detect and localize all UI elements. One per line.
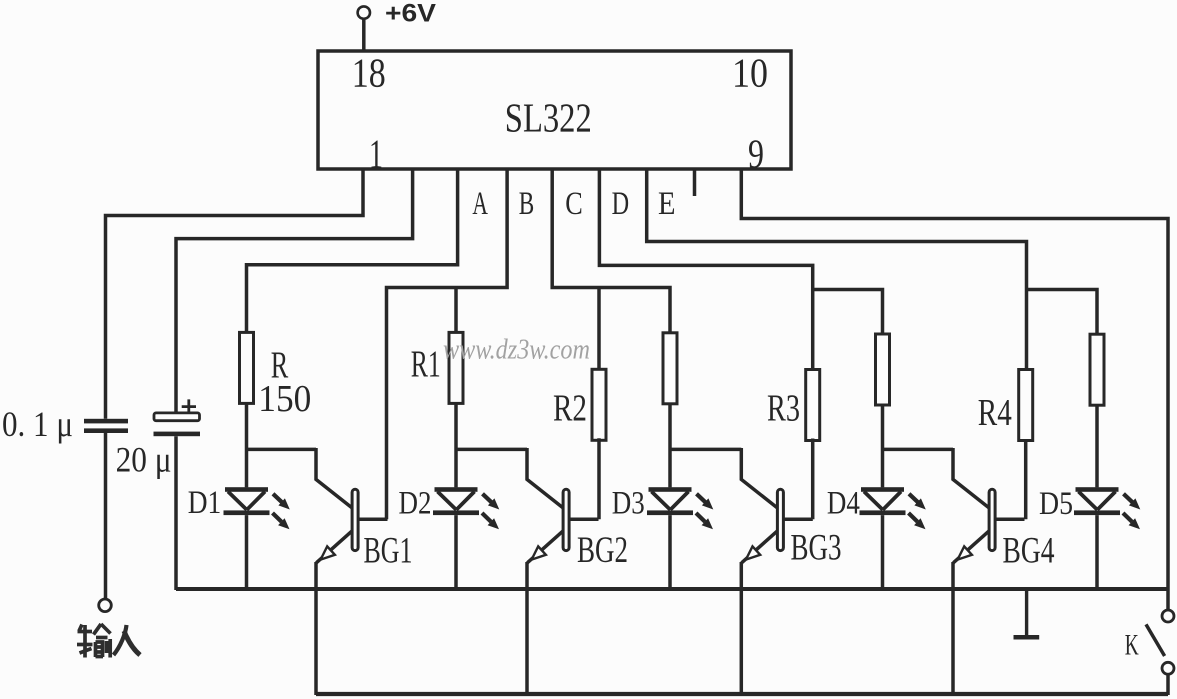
- wire +6V to IC: [362, 19, 366, 51]
- svg-text:A: A: [472, 186, 488, 222]
- ground: [1014, 590, 1040, 637]
- pin 8 stub: [693, 169, 697, 196]
- wire pin E to R4 and stage5 resistor: [647, 169, 1097, 370]
- switch K: [1125, 610, 1174, 695]
- svg-text:B: B: [519, 186, 535, 222]
- svg-text:www.dz3w.com: www.dz3w.com: [443, 334, 590, 366]
- capacitor 0.1u: [2, 404, 128, 444]
- LED D2: [399, 486, 500, 530]
- wire R4 to BG4 base: [1024, 441, 1028, 520]
- wire pin1 to 0.1u cap: [106, 169, 364, 419]
- svg-text:C: C: [565, 186, 583, 222]
- wire pin D to R3 and stage4 resistor: [599, 169, 882, 370]
- svg-text:D5: D5: [1039, 486, 1073, 522]
- svg-text:1: 1: [369, 130, 383, 176]
- resistor stage4 anode: [876, 334, 890, 405]
- cathode bus: [176, 587, 1168, 591]
- svg-text:R2: R2: [553, 388, 587, 430]
- LED D5: [1039, 486, 1140, 529]
- LED D1: [188, 485, 290, 529]
- svg-text:0. 1 μ: 0. 1 μ: [2, 404, 73, 444]
- svg-text:D1: D1: [188, 485, 222, 521]
- wire D3 anode to BG3 collector: [670, 448, 741, 452]
- transistor BG4: [953, 448, 1055, 572]
- svg-text:D3: D3: [612, 486, 645, 522]
- svg-text:20 μ: 20 μ: [116, 440, 172, 480]
- resistor stage3 anode: [663, 333, 677, 404]
- resistor R4: [978, 370, 1033, 441]
- svg-text:E: E: [658, 186, 676, 222]
- wire R1 to D2 anode: [454, 403, 458, 487]
- wire BG3 emitter to bottom rail: [740, 562, 744, 695]
- svg-text:SL322: SL322: [505, 95, 592, 141]
- capacitor 20u electrolytic: [116, 399, 200, 479]
- wire stage5 resistor to D5 anode: [1095, 405, 1099, 487]
- wire pin B to BG1 base and R1: [387, 169, 508, 519]
- resistor R3: [767, 370, 820, 441]
- resistor R 150: [240, 332, 312, 420]
- wire stage4 resistor to D4 anode: [881, 405, 885, 487]
- svg-text:D: D: [612, 186, 630, 222]
- LED D3: [612, 486, 714, 530]
- wire stage3 resistor to D3 anode: [668, 404, 672, 488]
- op-amp U1 : IC SL322 box: [318, 49, 791, 176]
- wire D5 cathode to bus: [1095, 515, 1099, 590]
- wire BG4 emitter to bottom rail: [951, 562, 955, 695]
- wire pin 9 to switch K: [741, 169, 1168, 610]
- power terminal +6V: [358, 0, 437, 28]
- transistor BG2: [527, 448, 628, 571]
- svg-text:R1: R1: [411, 343, 441, 385]
- wire BG2 emitter to bottom rail: [525, 562, 529, 695]
- bottom rail: [316, 692, 1168, 696]
- wire pin2 to 20u cap: [176, 169, 413, 413]
- svg-text:150: 150: [258, 378, 311, 420]
- resistor R1: [411, 332, 463, 403]
- wire 20u to bus: [174, 436, 178, 590]
- wire D1 cathode to bus: [245, 515, 249, 590]
- wire D4 cathode to bus: [881, 515, 885, 590]
- wire D1 anode to BG1 collector: [247, 448, 317, 452]
- wire BG1 emitter to bottom rail: [314, 562, 318, 695]
- svg-text:BG3: BG3: [791, 528, 842, 569]
- wire 0.1u to input terminal: [104, 433, 108, 599]
- wire D2 anode to BG2 collector: [456, 448, 527, 452]
- svg-text:9: 9: [748, 130, 764, 176]
- resistor R2: [553, 369, 606, 440]
- svg-text:R3: R3: [767, 388, 800, 430]
- LED D4: [827, 486, 926, 530]
- svg-text:K: K: [1125, 629, 1139, 662]
- svg-text:D4: D4: [827, 486, 860, 522]
- svg-text:18: 18: [352, 49, 386, 95]
- wire D4 anode to BG4 collector: [883, 448, 954, 452]
- resistor stage5 anode: [1090, 334, 1104, 405]
- wire pin A to R150: [247, 169, 458, 332]
- transistor BG3: [741, 448, 841, 569]
- svg-text:D2: D2: [399, 486, 432, 522]
- input label (shu ru): [77, 624, 140, 658]
- svg-text:+6V: +6V: [385, 0, 436, 28]
- transistor BG1: [316, 448, 413, 572]
- svg-text:10: 10: [732, 49, 768, 95]
- input terminal: [99, 599, 112, 612]
- wire R150 to D1 anode: [245, 403, 249, 487]
- wire D2 cathode to bus: [454, 515, 458, 590]
- svg-text:BG2: BG2: [577, 530, 628, 571]
- svg-text:BG4: BG4: [1003, 531, 1055, 572]
- wire pin C to R2 and stage3 resistor: [552, 169, 670, 369]
- wire R3 to BG3 base: [811, 439, 815, 520]
- wire D3 cathode to bus: [668, 515, 672, 590]
- svg-text:BG1: BG1: [364, 531, 413, 572]
- wire R2 to BG2 base: [597, 438, 601, 519]
- svg-text:R4: R4: [978, 392, 1012, 434]
